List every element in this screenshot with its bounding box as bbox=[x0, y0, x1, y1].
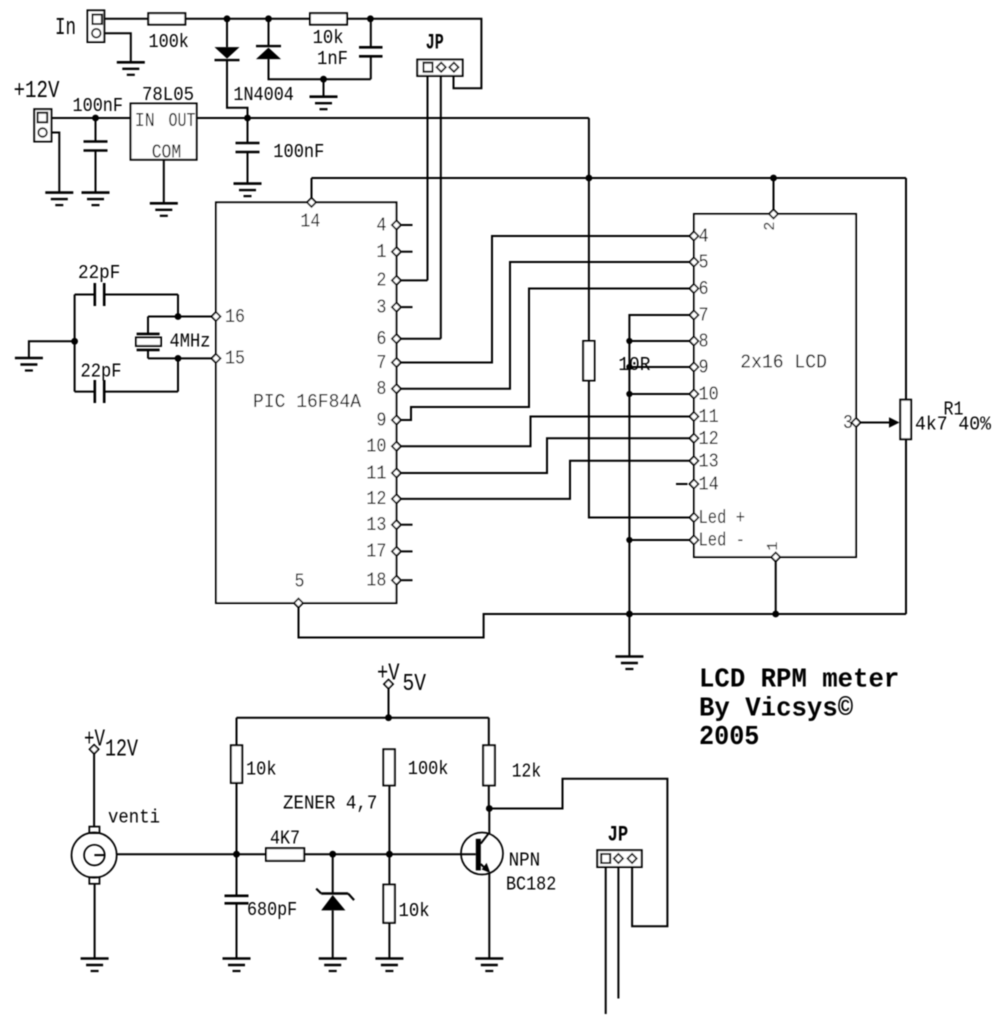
svg-text:3: 3 bbox=[843, 412, 853, 434]
pin 16 of PIC (left) bbox=[212, 312, 221, 321]
label IN bbox=[135, 110, 155, 132]
resistor 10k (divider bottom) bbox=[383, 885, 394, 923]
capacitor C 100nF (output) bbox=[236, 118, 260, 184]
label 100k (divider) bbox=[408, 758, 449, 780]
label 100nF (output cap) bbox=[273, 141, 324, 163]
wire PIC pin5 to ground rail bbox=[299, 608, 907, 638]
label +V (5V) bbox=[377, 661, 400, 688]
wire stub PIC pin 13 bbox=[402, 524, 413, 526]
wire collector to JP bottom pin3 bbox=[489, 779, 667, 927]
node C100nF-2 top bbox=[244, 115, 251, 122]
wire 10k to 1nF node bbox=[347, 18, 370, 20]
wire stub LCD pin14 bbox=[676, 483, 688, 485]
svg-text:13: 13 bbox=[366, 514, 386, 536]
node +5V to LCD column bbox=[586, 175, 593, 182]
svg-text:9: 9 bbox=[376, 409, 386, 431]
label pin 4 LCD bbox=[699, 226, 709, 248]
ground (zener) bbox=[319, 959, 347, 972]
label 12V bbox=[105, 737, 138, 764]
svg-text:12: 12 bbox=[699, 428, 719, 450]
wire divider 10k leads bbox=[388, 854, 390, 958]
capacitor C 22pF (top) bbox=[75, 283, 178, 306]
label pin 11 LCD bbox=[699, 406, 719, 428]
wire crystal bottom to PIC pin15 bbox=[148, 357, 212, 359]
wire 78L05 OUT +5V rail bbox=[197, 118, 589, 178]
label pin 18 PIC bbox=[366, 570, 386, 592]
svg-text:4K7: 4K7 bbox=[270, 828, 300, 850]
label pin 2 LCD (rotated) bbox=[762, 222, 779, 231]
label pin 7 PIC bbox=[376, 352, 386, 374]
ground (LCD column) bbox=[615, 657, 643, 670]
label 1N4004 bbox=[233, 84, 294, 106]
svg-text:10R: 10R bbox=[618, 354, 650, 376]
svg-text:IN: IN bbox=[135, 110, 155, 132]
wire 4K7 to transistor base bbox=[304, 853, 476, 855]
label venti bbox=[108, 807, 160, 829]
svg-text:4MHz: 4MHz bbox=[170, 331, 211, 353]
svg-text:22pF: 22pF bbox=[81, 361, 122, 383]
label pin 11 PIC bbox=[366, 462, 386, 484]
wire 10k-left to base node bbox=[236, 783, 238, 854]
node diode2 top bbox=[265, 15, 272, 22]
label pin 10 LCD bbox=[699, 384, 719, 406]
label pin 4 PIC bbox=[376, 214, 386, 236]
svg-text:18: 18 bbox=[366, 570, 386, 592]
svg-text:PIC 16F84A: PIC 16F84A bbox=[253, 391, 362, 413]
svg-text:10k: 10k bbox=[246, 759, 277, 781]
wire 12k to collector node bbox=[488, 785, 490, 808]
svg-text:NPN: NPN bbox=[509, 850, 541, 872]
wire clamp node to ground bbox=[323, 79, 325, 97]
pin 13 of PIC (right) bbox=[392, 520, 401, 529]
svg-text:LCD RPM meter: LCD RPM meter bbox=[699, 666, 899, 696]
svg-text:14: 14 bbox=[699, 474, 719, 496]
ground (clamp network) bbox=[310, 97, 338, 110]
wire 100k to diodes node bbox=[185, 18, 310, 20]
wire LCD pin2 to +5V rail bbox=[773, 178, 775, 210]
label pin 12 PIC bbox=[366, 488, 386, 510]
label 2x16 LCD bbox=[740, 351, 827, 373]
label pin 8 PIC bbox=[376, 378, 386, 400]
pin 8 of LCD bbox=[690, 337, 699, 346]
svg-text:7: 7 bbox=[699, 305, 709, 327]
label pin 3 PIC bbox=[376, 296, 386, 318]
node gnd col pin10 bbox=[626, 391, 632, 397]
label pin 1 PIC bbox=[376, 241, 386, 263]
label pin 3 LCD bbox=[843, 412, 853, 434]
svg-text:3: 3 bbox=[376, 296, 386, 318]
pin 15 of PIC (left) bbox=[212, 354, 221, 363]
label pin 13 LCD bbox=[699, 450, 719, 472]
svg-text:22pF: 22pF bbox=[78, 262, 120, 284]
node C100nF-1 top bbox=[92, 115, 99, 122]
ground (output cap) bbox=[234, 184, 262, 197]
label 22pF (top) bbox=[78, 262, 120, 284]
capacitor C 680pF bbox=[225, 854, 249, 958]
wire +5V down to 10R bbox=[588, 178, 590, 341]
svg-text:100nF: 100nF bbox=[273, 141, 324, 163]
svg-text:+V: +V bbox=[84, 727, 105, 754]
diode D1 1N4004 (to +5V, cathode down) bbox=[215, 19, 248, 118]
supply +V 5V symbol bbox=[384, 680, 393, 718]
resistor 4K7 (series) bbox=[266, 848, 304, 861]
wire JP pin2 to PIC pin6 bbox=[401, 76, 441, 339]
label pin 6 PIC bbox=[376, 328, 386, 350]
wire motor to base node bbox=[117, 853, 266, 855]
pin 8 of PIC (right) bbox=[392, 384, 401, 393]
svg-text:4: 4 bbox=[699, 226, 709, 248]
label In bbox=[55, 15, 76, 42]
svg-text:JP: JP bbox=[608, 822, 629, 847]
wire stub PIC pin 18 bbox=[402, 579, 413, 581]
wire PIC pin9 to LCD pin6 bbox=[401, 289, 690, 421]
wire stub PIC pin 4 bbox=[402, 224, 413, 226]
svg-text:8: 8 bbox=[376, 378, 386, 400]
pin 17 of PIC (right) bbox=[392, 547, 401, 556]
svg-text:10: 10 bbox=[699, 384, 719, 406]
label pin 9 LCD bbox=[699, 357, 709, 379]
ground (680pF) bbox=[223, 959, 251, 972]
regulator U 78L05 bbox=[131, 104, 197, 160]
svg-text:12k: 12k bbox=[512, 760, 541, 782]
label pin 10 PIC bbox=[366, 436, 386, 458]
resistor 10k (input filter) bbox=[310, 13, 347, 24]
node zener junction bbox=[329, 851, 336, 858]
wire top cap to pin16 net bbox=[177, 295, 179, 317]
pin 2 of LCD (top) bbox=[769, 210, 778, 219]
wiper arrow LCD pin3 to R1 bbox=[861, 417, 900, 427]
potentiometer R1 4k7 bbox=[900, 400, 911, 440]
crystal X1 4MHz bbox=[136, 317, 161, 359]
IC LCD module 2x16 box bbox=[694, 214, 856, 557]
label JP (bottom) bbox=[608, 822, 629, 847]
svg-text:6: 6 bbox=[376, 328, 386, 350]
label 1nF bbox=[317, 48, 348, 70]
ground (divider 10k) bbox=[375, 959, 403, 972]
pin 7 of LCD bbox=[690, 311, 699, 320]
label 100k bbox=[149, 31, 189, 53]
svg-text:11: 11 bbox=[699, 406, 719, 428]
svg-text:2005: 2005 bbox=[699, 723, 759, 753]
wire JP bottom pin2 down bbox=[617, 867, 619, 999]
pin 6 of LCD bbox=[690, 284, 699, 293]
pin 4 of PIC (right) bbox=[392, 221, 401, 230]
connector In (2-pin header) bbox=[88, 10, 105, 42]
wire LCD pin7 ground column bbox=[629, 315, 689, 657]
ground (oscillator) bbox=[15, 358, 43, 371]
pin 9 of LCD bbox=[690, 363, 699, 372]
label R1 bbox=[944, 399, 964, 421]
wire stub PIC pin 3 bbox=[402, 306, 413, 308]
wire LCD pin1 to ground rail bbox=[775, 562, 777, 615]
svg-text:5: 5 bbox=[699, 252, 709, 274]
pin 6 of PIC (right) bbox=[392, 334, 401, 343]
wire emitter to ground bbox=[488, 873, 490, 959]
node 680pF junction bbox=[233, 851, 240, 858]
wire JP bottom pin1 down bbox=[605, 867, 607, 1014]
pin 11 of LCD bbox=[690, 412, 699, 421]
svg-text:ZENER 4,7: ZENER 4,7 bbox=[283, 793, 377, 815]
wire +12V pin2 to ground bbox=[51, 133, 59, 193]
svg-text:13: 13 bbox=[699, 450, 719, 472]
connector JP (top, 3-pin) bbox=[417, 60, 462, 76]
ground (emitter) bbox=[475, 959, 503, 972]
pin 2 of PIC (right) bbox=[392, 276, 401, 285]
resistor 12k (collector) bbox=[483, 745, 495, 785]
svg-text:5: 5 bbox=[295, 571, 305, 593]
svg-text:1: 1 bbox=[765, 542, 782, 551]
node gnd col pin9 bbox=[626, 364, 632, 370]
label 22pF (bottom) bbox=[81, 361, 122, 383]
wire 78L05 COM to ground bbox=[163, 160, 165, 204]
label pin 2 PIC bbox=[376, 270, 386, 292]
wire crystal top to PIC pin16 bbox=[148, 316, 212, 318]
wire PIC pin12 to LCD pin13 bbox=[401, 461, 690, 499]
connector JP (bottom, 3-pin) bbox=[597, 850, 641, 867]
label 4k7 40% bbox=[915, 414, 992, 436]
resistor 10R (backlight) bbox=[583, 341, 594, 381]
connector +12V (2-pin header) bbox=[34, 109, 51, 141]
svg-text:15: 15 bbox=[225, 348, 245, 370]
wire motor to ground bbox=[94, 884, 96, 959]
label pin 9 PIC bbox=[376, 409, 386, 431]
svg-text:100k: 100k bbox=[408, 758, 449, 780]
svg-text:7: 7 bbox=[376, 352, 386, 374]
label 4K7 bbox=[270, 828, 300, 850]
svg-text:12: 12 bbox=[366, 488, 386, 510]
node gnd col pin8 bbox=[626, 338, 632, 344]
pin 1 of PIC (right) bbox=[392, 247, 401, 256]
svg-text:BC182: BC182 bbox=[506, 874, 556, 896]
pin 1 of LCD (bottom) bbox=[771, 553, 780, 562]
node ground rail / LCD pin1 bbox=[772, 611, 779, 618]
pin 7 of PIC (right) bbox=[392, 358, 401, 367]
wire bottom cap to pin15 net bbox=[177, 358, 179, 391]
capacitor C 1nF bbox=[359, 19, 383, 79]
label 680pF bbox=[247, 899, 297, 921]
wire 100k to node bbox=[388, 785, 390, 854]
node gnd col Led- bbox=[626, 537, 632, 543]
IC U1 PIC 16F84A box bbox=[216, 202, 396, 603]
pin 9 of PIC (right) bbox=[392, 416, 401, 425]
svg-text:680pF: 680pF bbox=[247, 899, 297, 921]
wire LCD pin10 to ground column bbox=[629, 393, 689, 395]
wire PIC pin11 to LCD pin12 bbox=[401, 438, 690, 473]
svg-text:16: 16 bbox=[225, 306, 245, 328]
title By Vicsys(c) bbox=[699, 695, 853, 725]
svg-text:12V: 12V bbox=[105, 737, 138, 764]
wire +12V to 78L05 IN bbox=[51, 117, 130, 119]
diode D2 1N4004 (clamp, cathode up) bbox=[256, 19, 371, 79]
label +12V bbox=[14, 78, 60, 105]
wire +5V rail (PIC pin14 to R1 top) bbox=[312, 178, 907, 400]
label 100nF (input cap) bbox=[73, 95, 124, 117]
svg-text:+V: +V bbox=[377, 661, 400, 688]
svg-text:11: 11 bbox=[366, 462, 386, 484]
node ground rail / LCD column bbox=[626, 611, 633, 618]
resistor 100k (input) bbox=[148, 13, 185, 24]
label pin 14 PIC bbox=[300, 210, 320, 232]
node +5V to LCD pin2 bbox=[770, 175, 777, 182]
wire bottom +5V rail bbox=[237, 718, 489, 746]
svg-text:venti: venti bbox=[108, 807, 160, 829]
supply +V 12V symbol bbox=[90, 745, 99, 827]
svg-text:4k7 40%: 4k7 40% bbox=[915, 414, 992, 436]
label pin 17 PIC bbox=[366, 541, 386, 563]
capacitor C 100nF (input) bbox=[84, 118, 108, 193]
svg-text:8: 8 bbox=[699, 331, 709, 353]
label 10k bbox=[313, 27, 344, 49]
pin 14 of LCD bbox=[690, 480, 699, 489]
resistor 10k (pullup left) bbox=[231, 745, 242, 783]
svg-text:4: 4 bbox=[376, 214, 386, 236]
pin 11 of PIC (right) bbox=[392, 469, 401, 478]
pin Led - of LCD bbox=[690, 536, 699, 545]
svg-text:COM: COM bbox=[152, 142, 182, 164]
label JP (top) bbox=[426, 31, 444, 56]
svg-text:2: 2 bbox=[762, 222, 779, 231]
label +V (12V) bbox=[84, 727, 105, 754]
pin Led + of LCD bbox=[690, 513, 699, 522]
wire PIC pin7 to LCD pin4 bbox=[401, 236, 690, 363]
title LCD RPM meter bbox=[699, 666, 899, 696]
svg-text:17: 17 bbox=[366, 541, 386, 563]
wire stub PIC pin 1 bbox=[402, 251, 413, 253]
node bottom rail / 100k bbox=[385, 714, 392, 721]
node base divider junction bbox=[386, 851, 393, 858]
svg-text:Led +: Led + bbox=[699, 507, 746, 529]
pin 14 of PIC (top) bbox=[307, 198, 316, 207]
pin 10 of LCD bbox=[690, 390, 699, 399]
label PIC 16F84A bbox=[253, 391, 362, 413]
wire stub PIC pin 17 bbox=[402, 550, 413, 552]
svg-text:OUT: OUT bbox=[169, 110, 196, 132]
svg-text:10k: 10k bbox=[313, 27, 344, 49]
wire top rail to JP pin3 bbox=[370, 19, 481, 88]
capacitor C 22pF (bottom) bbox=[75, 380, 178, 403]
pin 12 of LCD bbox=[690, 434, 699, 443]
diode Z1 zener 4,7 bbox=[316, 854, 354, 958]
svg-text:9: 9 bbox=[699, 357, 709, 379]
ground (In connector) bbox=[117, 62, 145, 75]
wire LCD Led- to ground column bbox=[629, 539, 689, 541]
pin 12 of PIC (right) bbox=[392, 494, 401, 503]
ground (motor) bbox=[81, 959, 109, 972]
node osc ground junction bbox=[71, 338, 78, 345]
wire R1 bottom to ground rail bbox=[905, 439, 907, 614]
wire In pin1 to R 100k bbox=[104, 18, 148, 20]
title 2005 bbox=[699, 723, 759, 753]
wire PIC pin10 to LCD pin11 bbox=[401, 417, 690, 447]
pin 5 of PIC (bottom) bbox=[294, 599, 303, 608]
wire LCD pin8 to ground column bbox=[629, 340, 689, 342]
pin 18 of PIC (right) bbox=[392, 576, 401, 585]
label ZENER 4,7 bbox=[283, 793, 377, 815]
label pin 5 PIC bbox=[295, 571, 305, 593]
label 10k (divider) bbox=[399, 900, 430, 922]
label pin 1 LCD (rotated) bbox=[765, 542, 782, 551]
pin 5 of LCD bbox=[690, 258, 699, 267]
label OUT bbox=[169, 110, 196, 132]
pin 3 of LCD (right) bbox=[852, 418, 861, 427]
node collector bbox=[486, 805, 493, 812]
label COM bbox=[152, 142, 182, 164]
pin 10 of PIC (right) bbox=[392, 442, 401, 451]
label NPN bbox=[509, 850, 541, 872]
wire osc to ground bbox=[29, 341, 75, 358]
label pin 7 LCD bbox=[699, 305, 709, 327]
node crystal top bbox=[175, 313, 182, 320]
svg-text:100nF: 100nF bbox=[73, 95, 124, 117]
wire PIC pin8 to LCD pin5 bbox=[401, 262, 690, 389]
wire 10R to LCD Led+ bbox=[589, 381, 690, 518]
wire LCD pin9 to ground column bbox=[629, 366, 689, 368]
svg-text:6: 6 bbox=[699, 278, 709, 300]
label pin 13 PIC bbox=[366, 514, 386, 536]
label pin Led + LCD bbox=[699, 507, 746, 529]
label 78L05 bbox=[142, 84, 194, 106]
resistor 100k (divider top) bbox=[383, 749, 394, 785]
label pin 16 PIC bbox=[225, 306, 245, 328]
label 10R bbox=[618, 354, 650, 376]
svg-text:+12V: +12V bbox=[14, 78, 60, 105]
label pin 5 LCD bbox=[699, 252, 709, 274]
label 10k (left) bbox=[246, 759, 277, 781]
label pin 14 LCD bbox=[699, 474, 719, 496]
svg-text:In: In bbox=[55, 15, 76, 42]
wire JP pin1 to PIC pin2 bbox=[401, 76, 428, 281]
svg-text:100k: 100k bbox=[149, 31, 189, 53]
node clamp ground junction bbox=[320, 76, 327, 83]
wire In pin2 to ground bbox=[104, 33, 131, 62]
node diode1 top bbox=[224, 15, 231, 22]
transistor Q1 BC182 NPN bbox=[461, 809, 503, 875]
svg-text:1: 1 bbox=[376, 241, 386, 263]
svg-text:2: 2 bbox=[376, 270, 386, 292]
label pin Led - LCD bbox=[699, 530, 746, 552]
svg-text:14: 14 bbox=[300, 210, 320, 232]
node crystal bottom bbox=[175, 355, 182, 362]
ground (+12V connector) bbox=[45, 193, 73, 206]
pin 3 of PIC (right) bbox=[392, 303, 401, 312]
svg-text:10k: 10k bbox=[399, 900, 430, 922]
svg-text:1N4004: 1N4004 bbox=[233, 84, 294, 106]
label 4MHz bbox=[170, 331, 211, 353]
label pin 15 PIC bbox=[225, 348, 245, 370]
wire osc left leg bbox=[74, 295, 76, 392]
pin 13 of LCD bbox=[690, 456, 699, 465]
label 5V bbox=[403, 671, 427, 698]
label pin 8 LCD bbox=[699, 331, 709, 353]
svg-text:JP: JP bbox=[426, 31, 444, 56]
svg-text:2x16 LCD: 2x16 LCD bbox=[740, 351, 827, 373]
svg-text:10: 10 bbox=[366, 436, 386, 458]
motor M venti (fan) bbox=[72, 827, 117, 884]
pin 4 of LCD bbox=[690, 232, 699, 241]
label pin 12 LCD bbox=[699, 428, 719, 450]
label BC182 bbox=[506, 874, 556, 896]
node 1nF top bbox=[367, 15, 374, 22]
svg-text:Led -: Led - bbox=[699, 530, 746, 552]
svg-text:5V: 5V bbox=[403, 671, 427, 698]
ground (input cap) bbox=[82, 193, 110, 206]
label pin 6 LCD bbox=[699, 278, 709, 300]
svg-text:78L05: 78L05 bbox=[142, 84, 194, 106]
ground (78L05 COM) bbox=[150, 203, 178, 216]
label 12k bbox=[512, 760, 541, 782]
svg-text:1nF: 1nF bbox=[317, 48, 348, 70]
svg-text:By Vicsys©: By Vicsys© bbox=[699, 695, 853, 725]
